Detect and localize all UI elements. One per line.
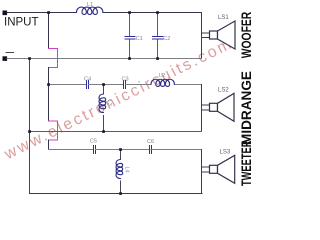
wire: tweeter speaker stubs xyxy=(202,167,210,172)
svg-text:C2: C2 xyxy=(163,36,170,42)
svg-text:INPUT: INPUT xyxy=(4,16,39,28)
svg-text:C4: C4 xyxy=(84,76,91,82)
wire hop (magenta jog) over midrange return rail xyxy=(49,121,58,140)
wire: C1 shunt vertical xyxy=(129,13,131,59)
junction: C2 on top rail xyxy=(156,11,159,14)
svg-text:LS3: LS3 xyxy=(220,150,231,156)
svg-text:WOOFER: WOOFER xyxy=(238,12,254,59)
wire: midrange segment C4 to C3 xyxy=(88,84,123,86)
svg-text:L4: L4 xyxy=(124,167,130,173)
input - terminal xyxy=(3,56,8,61)
svg-text:C1: C1 xyxy=(136,36,143,42)
minus polarity dash xyxy=(6,52,13,54)
wire: tweeter input segment xyxy=(49,149,94,151)
loudspeaker LS2 (midrange) xyxy=(210,93,235,121)
wire: tweeter segment C5 to C6 xyxy=(96,149,150,151)
watermark text xyxy=(2,35,236,164)
junction: bus on midrange return rail xyxy=(28,130,31,133)
wire: bottom rail xyxy=(30,193,203,195)
junction: feed tap on top rail xyxy=(47,11,50,14)
wire: L4 top lead xyxy=(120,150,122,160)
wire: positive feed vertical upper xyxy=(48,13,50,49)
svg-text:LS1: LS1 xyxy=(218,15,229,21)
wire: midrange output segment xyxy=(174,84,201,86)
junction: L3 on midrange wire xyxy=(102,83,105,86)
svg-text:LS2: LS2 xyxy=(218,87,229,93)
wire: woofer branch vertical xyxy=(201,13,203,59)
junction: L4 on tweeter wire xyxy=(119,148,122,151)
wire: negative bus vertical xyxy=(29,59,31,194)
junction: C1 on top rail xyxy=(128,11,131,14)
wire: top rail right segment xyxy=(104,12,202,14)
svg-text:C6: C6 xyxy=(147,139,154,145)
junction: feed to midrange wire xyxy=(47,83,50,86)
capacitor C4 plates xyxy=(87,81,89,89)
inductor L4 (shunt) xyxy=(116,160,123,179)
junction: L3 on midrange return rail xyxy=(102,130,105,133)
wire: midrange segment C3 to L2 xyxy=(125,84,151,86)
inductor L2 xyxy=(151,79,174,86)
svg-text:TWEETER: TWEETER xyxy=(238,141,254,187)
junction: L4 on bottom rail xyxy=(119,192,122,195)
svg-text:MIDRANGE: MIDRANGE xyxy=(238,71,254,145)
junction: C1 on minus rail xyxy=(128,57,131,60)
inductor L3 (shunt) xyxy=(99,94,106,113)
wire hop (magenta jog) over minus rail xyxy=(49,49,58,68)
wire: midrange input segment xyxy=(49,84,87,86)
svg-text:C3: C3 xyxy=(122,76,129,82)
capacitor C1 plates xyxy=(125,37,135,40)
capacitor C6 plates xyxy=(150,146,152,154)
capacitor C3 plates xyxy=(124,81,126,89)
input + terminal xyxy=(3,11,8,16)
wire: L4 bottom lead xyxy=(120,181,122,194)
wire: woofer speaker stubs xyxy=(202,33,210,38)
wire: L3 top lead xyxy=(103,85,105,95)
wire: tweeter output segment xyxy=(152,149,202,151)
svg-text:L1: L1 xyxy=(87,2,93,8)
junction: C2 on minus rail xyxy=(156,57,159,60)
inductor L1 xyxy=(75,7,105,14)
loudspeaker LS1 (woofer) xyxy=(210,21,236,49)
svg-text:L3: L3 xyxy=(106,100,112,106)
wire: top rail left segment xyxy=(7,12,75,14)
capacitor C5 plates xyxy=(94,146,96,154)
wire: positive feed vertical middle xyxy=(48,68,50,122)
junction: bus on minus rail xyxy=(28,57,31,60)
loudspeaker LS3 (tweeter) xyxy=(210,155,235,183)
wire: L3 bottom lead xyxy=(103,115,105,131)
svg-text:C5: C5 xyxy=(90,139,97,145)
wire: midrange return rail xyxy=(30,131,202,133)
svg-text:L2: L2 xyxy=(159,73,165,79)
wire: tweeter speaker vertical xyxy=(201,150,203,194)
wire: midrange speaker stubs xyxy=(202,105,210,110)
capacitor C2 plates xyxy=(152,37,163,40)
wire: C2 shunt vertical xyxy=(157,13,159,59)
wire: minus rail xyxy=(7,58,202,60)
wire: midrange speaker vertical xyxy=(201,85,203,132)
wire: positive feed vertical lower xyxy=(48,140,50,150)
